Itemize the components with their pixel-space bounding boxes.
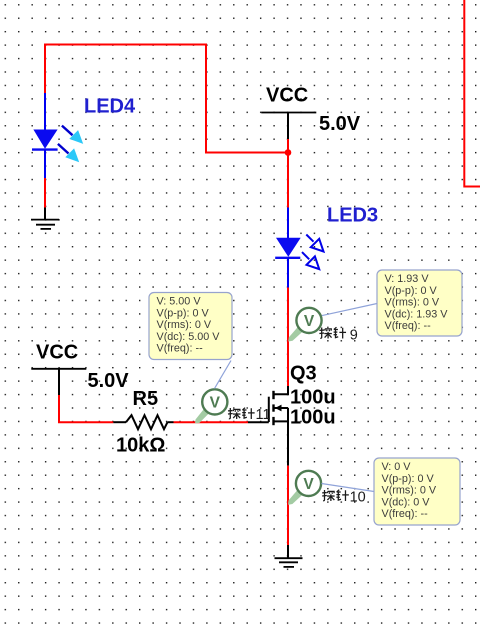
wire red top-left L: LED4 anode to junction net bbox=[45, 44, 288, 153]
svg-text:Q3: Q3 bbox=[290, 363, 317, 385]
svg-text:11: 11 bbox=[256, 407, 271, 423]
svg-text:9: 9 bbox=[350, 328, 358, 344]
svg-text:5.0V: 5.0V bbox=[319, 113, 361, 135]
svg-text:V(dc): 1.93 V: V(dc): 1.93 V bbox=[385, 308, 449, 320]
svg-text:10kΩ: 10kΩ bbox=[116, 435, 165, 457]
svg-text:V(rms): 0 V: V(rms): 0 V bbox=[157, 319, 212, 331]
transistor Q3 (NMOS) bbox=[248, 386, 288, 425]
svg-text:V(rms): 0 V: V(rms): 0 V bbox=[382, 485, 437, 497]
power VCC top bbox=[261, 113, 316, 140]
probe 9 bbox=[288, 308, 321, 342]
svg-text:LED3: LED3 bbox=[327, 205, 378, 227]
svg-text:V: 0 V: V: 0 V bbox=[382, 461, 412, 473]
junction node bbox=[285, 149, 292, 156]
ground (below LED4) bbox=[31, 220, 59, 229]
svg-text:R5: R5 bbox=[133, 388, 159, 410]
svg-text:V: 5.00 V: V: 5.00 V bbox=[157, 296, 202, 308]
callout line probe 9 bbox=[322, 304, 377, 316]
callout line probe 10 bbox=[322, 484, 375, 492]
svg-text:V(p-p): 0 V: V(p-p): 0 V bbox=[385, 285, 438, 297]
svg-text:V: V bbox=[303, 476, 314, 493]
svg-text:V(p-p): 0 V: V(p-p): 0 V bbox=[382, 473, 435, 485]
wire red VCC stem to junction bbox=[287, 139, 289, 153]
tooltip probe 10 bbox=[374, 458, 460, 525]
power VCC left bbox=[31, 369, 86, 395]
probe 10 label bbox=[322, 490, 366, 506]
svg-text:V(rms): 0 V: V(rms): 0 V bbox=[385, 297, 440, 309]
svg-text:LED4: LED4 bbox=[84, 96, 136, 118]
svg-text:V: V bbox=[210, 395, 221, 412]
svg-text:100u: 100u bbox=[290, 406, 336, 428]
wire red source to ground bbox=[287, 466, 289, 545]
wire blue LED3 cathode bbox=[287, 258, 289, 288]
svg-text:VCC: VCC bbox=[36, 342, 78, 364]
wire LED4 cathode to ground: blue/red/black bbox=[44, 150, 46, 220]
wire red right edge bbox=[464, 0, 480, 187]
svg-text:V(freq): --: V(freq): -- bbox=[382, 508, 429, 520]
ground (bottom) bbox=[275, 558, 303, 567]
svg-text:V(dc): 5.00 V: V(dc): 5.00 V bbox=[157, 331, 221, 343]
svg-text:VCC: VCC bbox=[266, 85, 308, 107]
Q3 body arrow bbox=[275, 405, 282, 412]
svg-text:V(p-p): 0 V: V(p-p): 0 V bbox=[157, 307, 210, 319]
svg-text:100u: 100u bbox=[290, 386, 336, 408]
resistor R5 bbox=[113, 415, 173, 429]
LED D3 bbox=[275, 235, 323, 270]
probe 11 bbox=[195, 389, 227, 423]
probe 10 bbox=[288, 471, 321, 505]
svg-text:V(freq): --: V(freq): -- bbox=[385, 320, 432, 332]
probe 11 label bbox=[228, 407, 271, 423]
tooltip probe 11 bbox=[149, 293, 232, 360]
svg-text:5.0V: 5.0V bbox=[88, 370, 130, 392]
wire red VCC left to R5 bbox=[59, 395, 113, 422]
svg-text:V: V bbox=[304, 313, 315, 330]
wire black Q3 source lead bbox=[287, 421, 289, 465]
svg-text:V(dc): 0 V: V(dc): 0 V bbox=[382, 496, 431, 508]
LED D4 bbox=[32, 126, 83, 163]
tooltip probe 9 bbox=[377, 270, 462, 336]
wire black ground stub bbox=[287, 545, 289, 558]
wire red R5 to Q3 gate bbox=[174, 421, 249, 423]
wire blue LED4 anode lead bbox=[44, 93, 46, 130]
wire red junction down to LED3 bbox=[287, 153, 289, 208]
svg-text:10: 10 bbox=[350, 490, 366, 506]
wire red LED3 cathode to Q3 drain bbox=[287, 288, 289, 387]
svg-text:V(freq): --: V(freq): -- bbox=[157, 343, 204, 355]
svg-text:V: 1.93 V: V: 1.93 V bbox=[385, 273, 430, 285]
callout line probe 11 bbox=[215, 361, 232, 389]
wire blue LED3 anode lead bbox=[287, 208, 289, 239]
probe 9 label bbox=[319, 327, 357, 343]
